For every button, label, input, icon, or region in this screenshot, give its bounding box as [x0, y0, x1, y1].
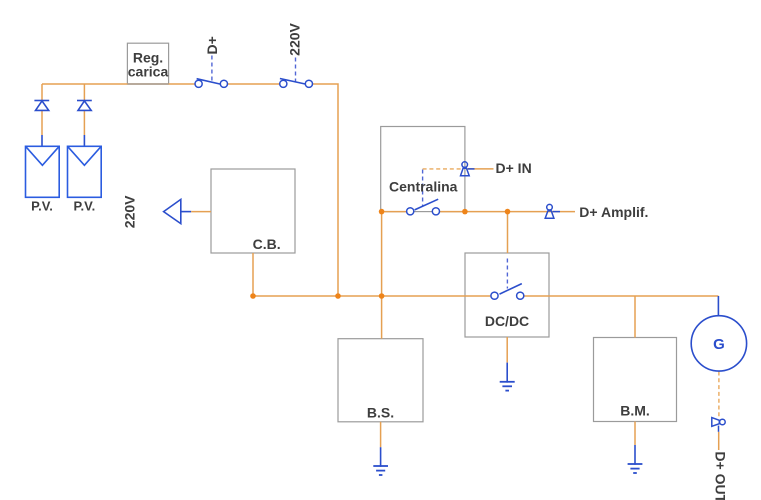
lamp D+ OUT (rotated) [712, 418, 725, 432]
ground B.M. [628, 464, 643, 473]
wire DC/DC ground blue [506, 363, 508, 383]
box Centralina [381, 127, 465, 212]
svg-text:220V: 220V [122, 195, 138, 228]
wire B.M. ground blue [634, 445, 636, 465]
triangle 220V outlet [164, 199, 181, 223]
switch S1 [195, 79, 227, 88]
svg-text:D+ OUT: D+ OUT [713, 451, 729, 500]
dashed blue control switch1 [211, 56, 213, 84]
wire DC/DC drop [507, 212, 509, 253]
ground DC/DC [500, 382, 515, 391]
wire D+ IN solid orange [468, 168, 494, 170]
svg-text:DC/DC: DC/DC [485, 313, 529, 329]
wire D+ OUT solid orange [718, 432, 720, 450]
generator G [691, 316, 746, 371]
junction node B.S. bus [379, 293, 385, 299]
wire top bus from PV corner to switches and down [42, 84, 338, 296]
wire triangle to C.B. [191, 211, 211, 213]
wire B.M. drop [634, 296, 636, 338]
svg-text:P.V.: P.V. [31, 199, 53, 214]
wire PV1 drop lower [41, 110, 43, 135]
switch S2 [280, 79, 313, 88]
lamp D+ IN [461, 162, 475, 176]
diode D2 [77, 101, 92, 111]
wire B.S. ground orange [380, 422, 382, 447]
wire PV2 drop upper [83, 84, 85, 101]
svg-text:C.B.: C.B. [253, 236, 281, 252]
svg-text:D+: D+ [204, 36, 220, 54]
wire D+ branch y212 [382, 211, 411, 213]
box B.S. [338, 339, 423, 422]
dashed blue control switch2 [295, 58, 297, 84]
dashed blue control Centralina switch [422, 170, 424, 207]
box C.B. [211, 169, 295, 253]
svg-text:220V: 220V [287, 22, 303, 55]
switch Centralina [407, 199, 440, 215]
wire triangle blue stub [181, 211, 191, 213]
svg-text:B.M.: B.M. [620, 402, 650, 418]
lamp D+ Amplif. [545, 204, 560, 218]
box DC/DC [465, 253, 549, 337]
dashed orange D+ IN [423, 168, 461, 170]
wire PV2 blue stub [83, 135, 85, 146]
diode D1 [34, 101, 49, 111]
wire C.B. drop [252, 253, 254, 296]
wire DC/DC ground orange [506, 337, 508, 363]
svg-text:B.S.: B.S. [367, 405, 394, 421]
dashed blue control DC/DC switch [506, 259, 508, 289]
svg-text:D+ IN: D+ IN [496, 160, 532, 176]
wire G blue drop [717, 296, 719, 316]
wire B.M. ground orange [634, 422, 636, 446]
wire PV1 drop upper [41, 84, 43, 101]
wire PV2 drop lower [83, 110, 85, 135]
box B.M. [594, 338, 677, 422]
svg-text:carica: carica [128, 63, 169, 79]
ground B.S. [373, 466, 388, 475]
wire PV1 blue stub [41, 135, 43, 146]
junction node Centralina bottom right [462, 209, 468, 215]
svg-text:G: G [713, 336, 725, 353]
svg-text:P.V.: P.V. [74, 199, 96, 214]
junction node C.B. bus [250, 293, 256, 299]
wire main bus [253, 295, 495, 297]
panel P.V. 1 [26, 146, 60, 197]
junction node Centralina bottom left [379, 209, 385, 215]
svg-text:D+ Amplif.: D+ Amplif. [579, 204, 648, 220]
junction node top drop bus [335, 293, 341, 299]
dashed orange G to D+ OUT [718, 372, 720, 418]
wire Reg. carica bottom edge re-stroke [127, 83, 168, 85]
wire B.S. ground blue [380, 447, 382, 467]
junction node DC/DC branch [505, 209, 511, 215]
box Reg. carica [127, 43, 168, 84]
wire Centralina to B.S. vertical [381, 212, 383, 339]
svg-text:Centralina: Centralina [389, 179, 458, 195]
panel P.V. 2 [68, 146, 102, 197]
switch DC/DC [491, 284, 524, 300]
